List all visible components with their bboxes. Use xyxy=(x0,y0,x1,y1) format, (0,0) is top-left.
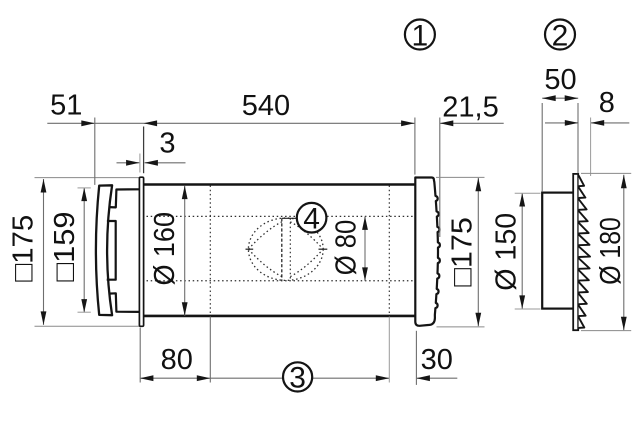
ext lines 159 xyxy=(78,187,91,189)
ext lines 175 hood xyxy=(436,176,485,178)
wall plate bottom edge line xyxy=(35,325,140,327)
dim 159 line xyxy=(83,188,85,313)
ext line 540 left xyxy=(143,127,145,174)
ext line 80 left xyxy=(139,328,141,383)
dim dia150 line xyxy=(521,193,523,309)
ext line 50 left xyxy=(541,103,543,192)
svg-text:Ø 160: Ø 160 xyxy=(149,212,181,285)
cover middle bar xyxy=(107,221,116,280)
ext line 30 xyxy=(415,331,417,385)
hidden inner duct line top xyxy=(147,215,415,217)
svg-text:30: 30 xyxy=(421,344,453,376)
svg-text:80: 80 xyxy=(161,344,193,376)
svg-text:540: 540 xyxy=(242,90,290,122)
hidden edge at x=389 xyxy=(388,186,390,316)
svg-text:3: 3 xyxy=(289,362,306,395)
svg-text:□175: □175 xyxy=(8,215,40,282)
dim dia160 line xyxy=(184,186,186,316)
heat exchanger ellipse xyxy=(248,218,323,280)
svg-text:Ø 80: Ø 80 xyxy=(330,220,362,276)
svg-text:Ø 180: Ø 180 xyxy=(595,217,627,285)
svg-text:2: 2 xyxy=(552,19,569,52)
dim 175 left line xyxy=(43,179,45,325)
ext line hood left xyxy=(414,118,416,175)
outdoor hood side view xyxy=(415,178,440,326)
svg-text:51: 51 xyxy=(50,90,82,122)
leader line for callout 4 xyxy=(282,217,298,219)
svg-text:50: 50 xyxy=(544,64,576,96)
interior cover shell xyxy=(96,185,112,315)
svg-text:1: 1 xyxy=(412,19,429,52)
duct tube wall bottom xyxy=(142,315,416,318)
callout circle 3 xyxy=(283,362,312,391)
dim 80 line xyxy=(140,377,283,379)
dim 3 lines xyxy=(117,162,140,164)
svg-text:Ø 150: Ø 150 xyxy=(490,213,522,291)
cover top hook arm xyxy=(109,189,140,207)
dim 175 hood line xyxy=(477,178,479,326)
petal arcs xyxy=(248,222,323,277)
svg-text:8: 8 xyxy=(599,87,615,119)
svg-text:21,5: 21,5 xyxy=(442,91,498,123)
ext lines dia150 xyxy=(515,192,541,194)
dim dia80 line xyxy=(364,216,366,281)
svg-text:3: 3 xyxy=(159,128,175,160)
svg-text:4: 4 xyxy=(303,203,320,236)
ext lines dia180 xyxy=(581,172,631,174)
ext line 3 xyxy=(139,154,141,173)
svg-text:□159: □159 xyxy=(49,212,81,282)
ext line at 389 below tube xyxy=(388,317,390,383)
ext line at 210 below tube xyxy=(209,317,211,383)
duct tube wall top xyxy=(142,183,416,186)
exchanger center solid edge xyxy=(281,218,283,280)
ext line 50-8 shared xyxy=(577,103,579,173)
wall plate top edge line xyxy=(35,177,140,179)
grille duct stub xyxy=(542,193,575,309)
mounting flange plate xyxy=(139,177,143,326)
cover bottom hook arm xyxy=(109,293,140,312)
hidden edge at x=210 xyxy=(209,186,211,316)
dim 51 line xyxy=(47,122,414,124)
grille back plate xyxy=(573,174,578,330)
ext line hood front xyxy=(439,118,441,238)
grille louvres xyxy=(579,176,590,328)
centerline ticks at ellipse vertices xyxy=(246,248,254,250)
dim 50 line xyxy=(542,97,578,99)
dim dia180 line xyxy=(623,175,625,330)
callout circle 4 xyxy=(297,203,327,233)
callout circle 1 xyxy=(405,20,435,50)
dim 21,5 line right part xyxy=(440,122,504,124)
dim 30 line xyxy=(416,377,457,379)
ext line 8 right xyxy=(590,118,592,177)
svg-text:□175: □175 xyxy=(446,217,478,286)
dim 8 lines xyxy=(545,122,578,124)
callout circle 2 xyxy=(545,20,575,50)
hidden inner duct line bottom xyxy=(147,280,415,282)
ext line 51 left xyxy=(94,118,96,185)
exchanger center dotted edge xyxy=(289,218,291,280)
